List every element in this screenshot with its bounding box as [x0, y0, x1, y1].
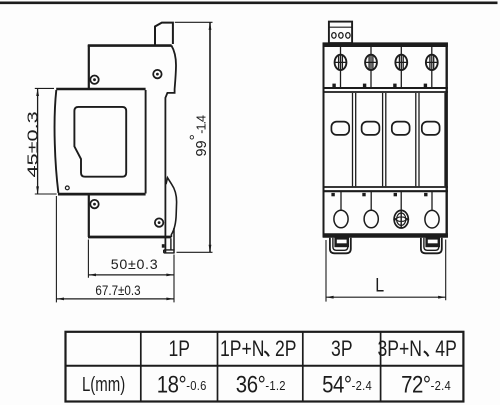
terminal screw 3 — [400, 45, 402, 87]
side view: module housing right edge — [145, 90, 147, 194]
svg-text:72°-2.4: 72°-2.4 — [401, 371, 451, 398]
svg-text:L(mm): L(mm) — [82, 373, 125, 396]
front view: bottom band notch tab 4 — [424, 193, 427, 196]
front view: terminal screws row — [335, 45, 438, 87]
front view: indicator window 2 — [362, 122, 380, 135]
front view: indicator window 3 — [392, 122, 410, 135]
dimension L arrows — [326, 296, 446, 299]
svg-text:1P: 1P — [168, 337, 190, 361]
front view: contact block pin hole 1 — [332, 33, 336, 39]
svg-text:50±0.3: 50±0.3 — [111, 257, 159, 273]
side view: right profile with rail notch — [165, 46, 176, 254]
front view: indicator window 1 — [331, 122, 349, 135]
side view: rail foot latch block — [162, 244, 165, 248]
side view: rivet bottom-left ring — [90, 200, 98, 208]
svg-text:4P: 4P — [435, 337, 457, 361]
svg-text:36°-1.2: 36°-1.2 — [236, 371, 286, 398]
side view: rivet bottom-right ring — [155, 218, 163, 226]
side view: small pin circle — [65, 186, 69, 190]
front view: pole 4 right edge — [444, 93, 446, 186]
terminal screw 2 — [370, 45, 372, 87]
svg-text:18°-0.6: 18°-0.6 — [157, 371, 207, 398]
front view: upper joint line A — [323, 87, 448, 89]
side view: rail foot outer edge — [173, 228, 175, 253]
front view: top band notch tab 4 — [424, 84, 427, 88]
side view: rivet bottom-right dot — [158, 221, 161, 224]
svg-text:3P+N: 3P+N — [378, 337, 422, 361]
front view: bottom band notch tab 2 — [362, 193, 365, 196]
side view: rivet top-left ring — [90, 76, 98, 84]
front view: body right edge — [446, 43, 448, 238]
front view: top band notch tab 1 — [332, 84, 335, 88]
side view: module housing left curved edge — [55, 90, 59, 193]
front view: lower joint line A — [323, 186, 448, 188]
front view: pole separator 2 — [383, 93, 386, 186]
bottom terminal screw 3 (phillips) — [394, 210, 408, 228]
dimension L extension lines — [326, 240, 446, 302]
side view: rivet top-right ring — [153, 70, 161, 78]
front view: contact block pin hole 2 — [339, 33, 343, 39]
svg-text:3P: 3P — [331, 337, 353, 361]
side view: rivet top-left dot — [93, 78, 96, 81]
bottom terminal circle 1 — [334, 210, 348, 228]
dimension 45±0.3 line — [37, 88, 39, 194]
front view: upper joint line B — [323, 91, 448, 93]
dimension 99 arrows — [209, 22, 212, 252]
side view: rail clip slider — [166, 178, 177, 237]
dimension 50±0.3 extension lines — [88, 240, 174, 303]
side view: body bottom edge — [88, 236, 171, 239]
front view: body top edge band — [323, 42, 448, 47]
front view: bottom band notch tab 1 — [331, 193, 334, 196]
dimension 99 line — [209, 22, 211, 252]
bottom terminal circle 2 — [364, 210, 378, 228]
front view: top band notch tab 2 — [363, 84, 366, 88]
front view: body bottom edge band — [323, 233, 448, 238]
front view: lower joint line B — [323, 190, 448, 192]
dimension L line — [326, 296, 446, 298]
bottom terminal wire 3 — [400, 192, 402, 211]
side view: label window with chamfered corner — [74, 107, 126, 177]
front view: DIN rail foot left — [330, 238, 351, 254]
terminal screw 4 — [431, 45, 433, 87]
front view: bottom band notch tab 3 — [394, 193, 397, 196]
side view: rail foot inner line — [170, 239, 172, 250]
front view: top band notch tab 3 — [393, 84, 396, 88]
dimension 67.7±0.3 arrows — [56, 298, 174, 301]
bottom terminal circle 4 — [425, 210, 439, 228]
svg-text:2P: 2P — [275, 337, 297, 361]
dimension 45±0.3 extension lines — [35, 88, 57, 194]
side view: rivet bottom-left dot — [93, 203, 96, 206]
side view: rail foot bottom double line — [164, 250, 175, 253]
side view: body left edge upper — [88, 45, 90, 89]
bottom terminal wire 4 — [431, 192, 433, 211]
dimension 50±0.3 line — [88, 274, 174, 276]
dimension 45±0.3 arrows — [36, 88, 39, 194]
front view: indicator window 4 — [422, 122, 440, 135]
bottom terminal wire 1 — [340, 192, 342, 211]
side view: module housing bottom edge — [58, 193, 146, 196]
specification table grid — [66, 332, 464, 402]
svg-text:1P+N: 1P+N — [220, 337, 264, 361]
side view: rivet top-right dot — [156, 73, 159, 76]
dimension 67.7±0.3 line — [56, 298, 174, 300]
svg-text:45±0.3: 45±0.3 — [24, 111, 40, 177]
front view: pole separator 1 — [353, 93, 356, 186]
side view: body left edge lower — [88, 195, 90, 237]
dimension 67.7±0.3 extension line left — [55, 196, 57, 302]
svg-text:67.7±0.3: 67.7±0.3 — [95, 282, 140, 298]
bottom terminal wire 2 — [370, 192, 372, 211]
dimension 99 extension lines — [175, 22, 213, 252]
front view: bottom terminals — [331, 192, 439, 228]
svg-text:99°-1.4: 99°-1.4 — [187, 115, 209, 157]
front view: remote contact block — [329, 22, 352, 43]
side view: module housing top edge — [56, 88, 145, 91]
terminal screw 1 — [340, 45, 342, 87]
frame top border — [0, 1, 498, 4]
side view: body top edge — [88, 44, 172, 47]
front view: contact block pin hole 3 — [346, 33, 350, 39]
side view: DIN clip top hook — [155, 23, 173, 45]
front view: pole separator 3 — [416, 93, 419, 186]
svg-text:L: L — [375, 274, 384, 296]
dimension 50±0.3 arrows — [88, 274, 174, 277]
svg-text:54°-2.4: 54°-2.4 — [322, 371, 372, 398]
front view: body left edge — [323, 43, 325, 238]
front view: DIN rail foot right — [421, 238, 442, 254]
